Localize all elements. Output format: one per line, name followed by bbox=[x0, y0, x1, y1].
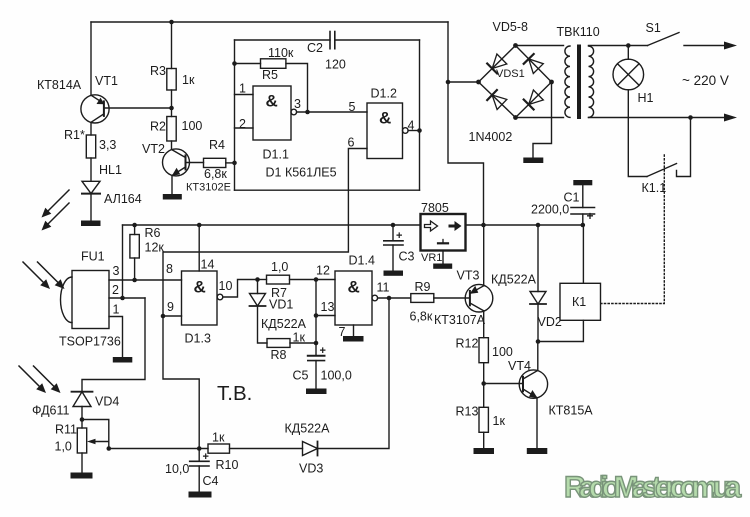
node R4 / D1.1 inputs bbox=[232, 161, 237, 166]
svg-text:VR1: VR1 bbox=[421, 252, 442, 264]
wire D1.2 pin6 to D1.3 pin9 net bbox=[163, 149, 367, 317]
svg-text:10: 10 bbox=[219, 279, 233, 293]
wire +5V rail left segment bbox=[123, 224, 421, 226]
svg-text:VD4: VD4 bbox=[95, 395, 119, 409]
svg-text:VD1: VD1 bbox=[269, 298, 293, 312]
wire D1.3 pin9 bbox=[163, 315, 182, 317]
svg-text:12к: 12к bbox=[145, 241, 165, 255]
ground R11 bbox=[71, 473, 93, 479]
node C1 / rail bbox=[581, 223, 586, 228]
svg-text:D1.2: D1.2 bbox=[371, 87, 397, 101]
wire VT1 base to node bbox=[105, 107, 172, 109]
wire K1 top to rail bbox=[582, 225, 584, 283]
svg-text:13: 13 bbox=[321, 300, 335, 314]
node K1.1 branch bbox=[688, 115, 693, 120]
svg-text:11: 11 bbox=[377, 281, 390, 295]
relay K1 bbox=[560, 283, 601, 320]
svg-text:6,8к: 6,8к bbox=[204, 167, 227, 181]
wire rail to R3 bbox=[171, 22, 173, 69]
wire FU1 pin1 to ground bbox=[109, 317, 123, 358]
svg-text:R12: R12 bbox=[456, 337, 479, 351]
svg-text:К1.1: К1.1 bbox=[642, 181, 667, 195]
svg-text:D1 К561ЛЕ5: D1 К561ЛЕ5 bbox=[266, 166, 337, 180]
svg-text:КТ814А: КТ814А bbox=[37, 78, 82, 92]
svg-text:R11: R11 bbox=[55, 423, 77, 437]
wire H1 bottom to K1.1 bbox=[628, 90, 647, 177]
svg-text:R1*: R1* bbox=[64, 128, 85, 142]
svg-text:8: 8 bbox=[166, 262, 173, 276]
gate D1.1 bbox=[239, 82, 301, 162]
wire 7805 gnd bbox=[442, 251, 444, 264]
wire R2 to VT2 collector bbox=[171, 141, 173, 150]
node bridge feed / VT3 bbox=[481, 223, 486, 228]
node R6 top bbox=[132, 223, 137, 228]
node FU1 pin2 bbox=[120, 296, 125, 301]
switch S1 bbox=[646, 21, 738, 50]
wire VD3 to pin11 riser bbox=[318, 298, 390, 449]
svg-text:VD2: VD2 bbox=[538, 315, 562, 329]
svg-text:5: 5 bbox=[349, 100, 356, 114]
svg-text:1: 1 bbox=[239, 82, 246, 96]
node R11 wiper / bottom net bbox=[107, 446, 112, 451]
svg-text:S1: S1 bbox=[646, 21, 661, 35]
svg-text:КД522А: КД522А bbox=[261, 317, 307, 331]
wire R13 to ground bbox=[483, 432, 485, 448]
svg-text:R5: R5 bbox=[262, 68, 278, 82]
wire HL1 to ground bbox=[90, 194, 92, 221]
wire top rail down to bridge bbox=[448, 22, 484, 225]
svg-text:R4: R4 bbox=[209, 138, 225, 152]
svg-text:D1.1: D1.1 bbox=[263, 148, 289, 162]
wire D1.1 out to D1.2 pin5 bbox=[297, 111, 367, 113]
svg-text:10,0: 10,0 bbox=[165, 462, 189, 476]
gate D1.4 bbox=[316, 254, 390, 340]
svg-text:К1: К1 bbox=[572, 295, 586, 309]
node D1.4 pin12 bbox=[314, 277, 319, 282]
wire bridge top AC to transformer bbox=[516, 45, 564, 47]
node pin11 bbox=[387, 296, 392, 301]
relay contact K1.1 bbox=[642, 118, 691, 196]
resistor R13 1k bbox=[456, 405, 506, 433]
svg-text:КТ3107А: КТ3107А bbox=[434, 313, 486, 327]
svg-text:3: 3 bbox=[294, 97, 301, 111]
svg-text:100,0: 100,0 bbox=[321, 369, 352, 383]
capacitor C4 10,0 bbox=[165, 449, 219, 492]
resistor R5 110k bbox=[261, 46, 294, 82]
transistor VT2 KT3102E NPN bbox=[142, 142, 231, 194]
wire node to VT4 base bbox=[484, 383, 523, 385]
wire oscillator top right bbox=[335, 39, 420, 41]
resistor R2 100 bbox=[150, 117, 202, 142]
wire VT4 emitter to ground bbox=[536, 398, 538, 448]
node VD2 / VT4 / K1 bbox=[536, 339, 541, 344]
bridge rectifier VDS1 VD5-8 bbox=[469, 20, 554, 144]
transistor VT4 KT815A NPN bbox=[508, 359, 593, 418]
node D1.3 pin9 bbox=[161, 314, 166, 319]
wire rail corner down to FU1 pin2 bbox=[122, 225, 124, 298]
wire VT4 collector up bbox=[537, 342, 539, 371]
node R12 / R13 / VT4 base bbox=[481, 381, 486, 386]
svg-text:&: & bbox=[266, 92, 278, 111]
svg-text:КТ3102Е: КТ3102Е bbox=[186, 182, 231, 194]
svg-text:14: 14 bbox=[201, 258, 215, 272]
svg-text:C2: C2 bbox=[307, 41, 323, 55]
svg-text:FU1: FU1 bbox=[81, 250, 105, 264]
svg-text:&: & bbox=[194, 278, 206, 297]
transistor VT1 KT814A PNP bbox=[37, 74, 118, 123]
ground FU1 bbox=[113, 357, 133, 363]
wire VT3 collector to R12 bbox=[483, 311, 485, 338]
transistor VT3 KT3107A PNP bbox=[434, 269, 493, 328]
gate D1.2 bbox=[348, 87, 415, 159]
svg-text:RadioMaster.com.ua: RadioMaster.com.ua bbox=[564, 471, 742, 504]
capacitor C1 2200,0 bbox=[531, 180, 595, 225]
wire VD4 to R11 bbox=[81, 407, 83, 429]
svg-text:3: 3 bbox=[113, 264, 120, 278]
wire R9 to VT3 base bbox=[434, 297, 470, 299]
wire bridge bottom AC to transformer bbox=[516, 117, 564, 119]
svg-text:9: 9 bbox=[167, 300, 174, 314]
node D1.1 output bbox=[305, 110, 310, 115]
wire VT3 emitter up to rail bbox=[483, 225, 485, 286]
wire R8 to node bbox=[290, 342, 316, 344]
wire K1 bottom to node bbox=[538, 320, 583, 341]
ground VT2 bbox=[163, 194, 182, 200]
svg-text:~ 220 V: ~ 220 V bbox=[682, 73, 729, 88]
svg-text:&: & bbox=[379, 109, 391, 128]
svg-text:ТВК110: ТВК110 bbox=[557, 25, 600, 39]
svg-text:6: 6 bbox=[348, 136, 355, 150]
svg-text:TSOP1736: TSOP1736 bbox=[59, 335, 121, 349]
svg-text:VT1: VT1 bbox=[95, 74, 118, 88]
node C4 top bbox=[197, 446, 202, 451]
photodiode VD4 FD611 bbox=[32, 392, 119, 418]
resistor R7 1,0 bbox=[267, 260, 290, 300]
node VT1 base / R3 / R2 bbox=[169, 106, 174, 111]
lamp H1 bbox=[613, 59, 654, 105]
wire R7 leads bbox=[258, 279, 267, 281]
wire VT1 collector up bbox=[90, 22, 92, 95]
svg-text:D1.3: D1.3 bbox=[185, 332, 211, 346]
ground HL1 bbox=[81, 221, 101, 227]
LED HL1 AL164 bbox=[82, 163, 142, 206]
svg-text:R2: R2 bbox=[150, 120, 166, 134]
wire VD2 to collector node bbox=[537, 304, 539, 342]
resistor R10 1k bbox=[208, 431, 238, 473]
wire bridge left corner lead bbox=[448, 81, 479, 83]
svg-text:110к: 110к bbox=[268, 46, 294, 60]
resistor R9 6,8k bbox=[410, 280, 434, 324]
resistor R8 1k bbox=[267, 331, 305, 363]
wire R10 to VD3 bbox=[230, 448, 303, 450]
wire bridge right corner to ground bbox=[533, 82, 552, 158]
svg-text:D1.4: D1.4 bbox=[349, 254, 375, 268]
transformer TBK110 primary winding bbox=[557, 25, 600, 117]
svg-text:R13: R13 bbox=[456, 405, 479, 419]
node R8 / C5 bbox=[314, 341, 319, 346]
resistor R4 6,8k bbox=[204, 138, 228, 181]
ground C3 bbox=[384, 271, 404, 276]
wire R3 bottom bbox=[171, 90, 173, 117]
wire pin12-pin13-C5 vertical bbox=[315, 280, 317, 356]
svg-text:R9: R9 bbox=[415, 280, 431, 294]
svg-text:1: 1 bbox=[113, 303, 120, 317]
wire FU1 pin2 bbox=[109, 297, 145, 299]
gate D1.3 bbox=[166, 258, 232, 346]
wire R4 to oscillator bbox=[226, 162, 235, 164]
wire oscillator left vertical bbox=[234, 40, 236, 190]
svg-text:C5: C5 bbox=[293, 369, 309, 383]
svg-text:VD3: VD3 bbox=[299, 462, 323, 476]
svg-text:1к: 1к bbox=[493, 414, 506, 428]
svg-text:VD5-8: VD5-8 bbox=[493, 20, 528, 34]
svg-text:1,0: 1,0 bbox=[271, 260, 288, 274]
wire VT1 emitter down bbox=[90, 122, 92, 135]
capacitor C5 100,0 bbox=[293, 345, 352, 389]
ground bridge bbox=[523, 158, 543, 164]
ground R13 bbox=[474, 448, 495, 454]
wire D1.1 pin2 bbox=[235, 127, 254, 129]
wire D1.1 pin1 bbox=[235, 94, 254, 96]
svg-text:КТ815А: КТ815А bbox=[549, 404, 594, 418]
ground C4 bbox=[189, 492, 212, 498]
wire R5 left lead bbox=[235, 63, 261, 65]
wire D1.4 out to R9 bbox=[378, 297, 411, 299]
svg-text:100: 100 bbox=[492, 345, 513, 359]
IR arrows to VD4 bbox=[19, 366, 61, 393]
IR emission arrows HL1 bbox=[42, 190, 70, 231]
capacitor C3 bbox=[384, 225, 415, 271]
transformer TBK110 secondary winding bbox=[565, 46, 570, 117]
node R6 bottom / FU1 pin3 bbox=[132, 278, 137, 283]
svg-text:+: + bbox=[320, 345, 326, 357]
regulator VR1 7805 bbox=[421, 201, 466, 264]
transformer core bbox=[577, 45, 581, 120]
ground VT4 bbox=[527, 448, 548, 454]
svg-text:C4: C4 bbox=[203, 474, 219, 488]
node VD4 / wiper bbox=[80, 417, 85, 422]
resistor R1* bbox=[64, 128, 116, 158]
resistor R3 1k bbox=[150, 64, 195, 90]
svg-text:7805: 7805 bbox=[421, 201, 449, 215]
diode VD1 KD522A bbox=[250, 280, 307, 332]
wire D1.4 pin13 bbox=[316, 315, 335, 317]
svg-text:+: + bbox=[587, 209, 594, 223]
IR arrows to FU1 bbox=[23, 262, 65, 289]
ground D1.4 pin7 bbox=[343, 336, 364, 342]
svg-text:R10: R10 bbox=[216, 458, 239, 472]
svg-text:2200,0: 2200,0 bbox=[531, 203, 569, 217]
svg-text:АЛ164: АЛ164 bbox=[104, 192, 142, 206]
wire oscillator right vertical bbox=[419, 40, 421, 190]
wire H1 top bbox=[627, 46, 629, 60]
svg-text:&: & bbox=[348, 278, 360, 297]
wire VT2 base to R4 bbox=[186, 162, 204, 164]
svg-text:6,8к: 6,8к bbox=[410, 310, 433, 324]
node D1.2 output bbox=[417, 128, 422, 133]
svg-text:R3: R3 bbox=[150, 64, 166, 78]
svg-text:R6: R6 bbox=[145, 226, 161, 240]
wire R11 bottom to ground bbox=[81, 453, 83, 473]
dashed relay linkage bbox=[601, 155, 665, 304]
wire transformer top to S1 bbox=[589, 45, 648, 47]
resistor R6 12k bbox=[130, 225, 165, 280]
svg-text:КД522А: КД522А bbox=[491, 273, 537, 287]
svg-text:3,3: 3,3 bbox=[99, 138, 116, 152]
svg-text:1к: 1к bbox=[212, 431, 225, 445]
svg-text:1N4002: 1N4002 bbox=[469, 130, 513, 144]
svg-text:ФД611: ФД611 bbox=[32, 404, 70, 418]
wire R5 right to output node bbox=[286, 64, 308, 113]
node bridge + output bbox=[446, 80, 451, 85]
capacitor C2 120 bbox=[307, 32, 346, 72]
ground C5 bbox=[306, 389, 327, 395]
diode VD2 KD522A bbox=[491, 225, 562, 329]
node R5 left bbox=[232, 61, 237, 66]
wire VT2 emitter to ground bbox=[171, 176, 173, 194]
wire VD1 to R8 bbox=[258, 306, 268, 343]
svg-text:2: 2 bbox=[239, 117, 246, 131]
svg-text:12: 12 bbox=[316, 264, 330, 278]
wire pin9 node jog down to C4 node bbox=[163, 316, 199, 449]
wire R12 to node bbox=[483, 363, 485, 408]
svg-text:VT3: VT3 bbox=[457, 269, 480, 283]
svg-text:HL1: HL1 bbox=[99, 163, 122, 177]
svg-text:1,0: 1,0 bbox=[55, 440, 72, 454]
node R7 left / VD1 bbox=[255, 277, 260, 282]
svg-text:+: + bbox=[396, 230, 402, 242]
wire oscillator bottom bbox=[235, 189, 420, 191]
svg-text:100: 100 bbox=[182, 119, 203, 133]
resistor R12 100 bbox=[456, 337, 513, 363]
wire R1 to HL1 bbox=[90, 158, 92, 181]
svg-text:2: 2 bbox=[112, 283, 119, 297]
svg-text:H1: H1 bbox=[638, 91, 654, 105]
diode VD3 KD522A bbox=[285, 422, 331, 476]
svg-text:VT4: VT4 bbox=[508, 359, 531, 373]
node R3 top bbox=[169, 20, 174, 25]
node H1 top bbox=[626, 43, 631, 48]
node D1.3 pin14 rail bbox=[197, 223, 202, 228]
wire FU1 pin2 down to VD4 bbox=[82, 298, 145, 392]
svg-text:VT2: VT2 bbox=[142, 142, 165, 156]
svg-text:VDS1: VDS1 bbox=[496, 68, 525, 80]
wire +V rail right segment bbox=[466, 224, 583, 226]
wire D1.3 out jog to R7 bbox=[223, 280, 258, 298]
svg-text:120: 120 bbox=[325, 58, 346, 72]
svg-text:КД522А: КД522А bbox=[285, 422, 331, 436]
ground 7805 bbox=[433, 264, 452, 269]
svg-text:C3: C3 bbox=[399, 250, 415, 264]
potentiometer R11 1,0 bbox=[55, 420, 109, 454]
node VD2 top bbox=[536, 223, 541, 228]
svg-text:R8: R8 bbox=[271, 348, 287, 362]
node D1.4 pin13 bbox=[314, 313, 319, 318]
wire D1.4 pin7 gnd bbox=[353, 325, 355, 336]
svg-text:Т.В.: Т.В. bbox=[217, 382, 252, 405]
node C3 top bbox=[391, 223, 396, 228]
wire top rail +V bbox=[91, 21, 448, 23]
wire bottom net to R10 bbox=[109, 448, 208, 450]
arrow AC bottom bbox=[724, 114, 737, 122]
svg-text:1к: 1к bbox=[182, 73, 195, 87]
wire D1.2 output to right vertical bbox=[408, 130, 419, 132]
IR receiver FU1 TSOP1736 bbox=[59, 250, 121, 349]
wire D1.3 pin14 bbox=[198, 225, 200, 271]
wire oscillator top left bbox=[235, 39, 331, 41]
wire FU1 pin3 to D1.3 pin8 bbox=[109, 279, 182, 281]
wire transformer bottom AC line bbox=[589, 117, 727, 119]
